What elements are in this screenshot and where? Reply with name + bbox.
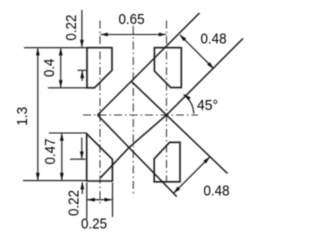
svg-text:0.22: 0.22 bbox=[66, 190, 83, 216]
svg-text:0.65: 0.65 bbox=[119, 11, 145, 28]
svg-text:45°: 45° bbox=[197, 97, 218, 114]
svg-text:0.4: 0.4 bbox=[41, 59, 58, 78]
svg-text:0.48: 0.48 bbox=[201, 30, 227, 47]
svg-text:0.48: 0.48 bbox=[204, 182, 230, 199]
svg-text:0.47: 0.47 bbox=[42, 139, 59, 165]
svg-text:0.25: 0.25 bbox=[81, 216, 107, 233]
svg-text:1.3: 1.3 bbox=[14, 107, 31, 126]
svg-text:0.22: 0.22 bbox=[63, 15, 80, 41]
